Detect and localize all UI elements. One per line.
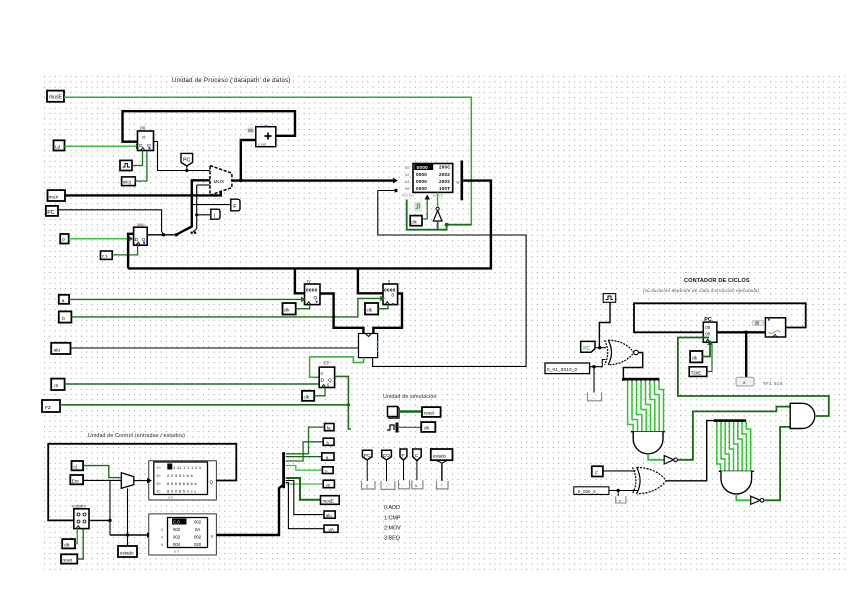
probe F (bottom row) — [399, 449, 410, 489]
wire clk to PC reg — [702, 340, 712, 357]
svg-text:uA: uA — [329, 527, 334, 532]
wire FSM riser — [109, 480, 111, 535]
tunnel clk (reg B) — [365, 303, 378, 315]
pin FZ — [42, 400, 60, 412]
svg-text:alu: alu — [54, 347, 61, 353]
wire reset to FSM — [77, 529, 83, 559]
node value junction — [592, 365, 595, 368]
wire ROM D to ALU path — [373, 191, 526, 367]
svg-text:clk: clk — [411, 219, 417, 224]
svg-text:C.0: C.0 — [173, 520, 180, 525]
svg-text:0:ADD: 0:ADD — [384, 505, 400, 511]
mux U1 MUX — [210, 166, 232, 196]
svg-text:rs: rs — [54, 383, 59, 389]
wire F to XOR2 in1 — [603, 470, 636, 472]
svg-text:clk: clk — [367, 308, 373, 313]
svg-text:0000: 0000 — [417, 165, 429, 171]
wire bundle1 bit lines — [628, 381, 664, 432]
pin LD — [54, 140, 65, 150]
svg-text:8 9 0 8 5 0 c c: 8 9 0 8 5 0 c c — [167, 489, 197, 494]
svg-text:clk: clk — [424, 426, 430, 431]
wire r2 to MUX2 — [83, 466, 121, 478]
pin fa (output) — [325, 424, 335, 431]
wire T20E to PC reg — [707, 342, 712, 371]
gate AND3 — [790, 403, 815, 428]
tunnel clk (sim) — [421, 422, 435, 432]
tunnel clk (reg A) — [283, 303, 296, 315]
clock buffer at ROM — [414, 202, 422, 212]
svg-text:musE: musE — [323, 499, 334, 504]
svg-text:Unidad de Proceso ('datapath': Unidad de Proceso ('datapath' de datos) — [172, 78, 291, 84]
pin b — [59, 311, 72, 322]
node Q junction 1 — [162, 233, 165, 236]
wire big loop (counter bus) — [634, 303, 806, 332]
pin uA (output) — [324, 525, 338, 532]
svg-text:reloj: reloj — [123, 180, 131, 185]
svg-text:CO: CO — [383, 453, 390, 459]
svg-text:u: u — [619, 498, 621, 503]
pin musE (output) — [321, 496, 340, 505]
svg-text:020: 020 — [194, 542, 202, 547]
wire EP out loop to ALU bottom (bright green) — [310, 357, 364, 377]
wire bus drop to register A — [295, 268, 305, 293]
wire EP Q riser — [335, 376, 351, 429]
probe F — [231, 199, 240, 211]
wire state to ROM3 — [110, 532, 152, 538]
wire clock to R1 — [132, 151, 143, 166]
wire musE net (bright green) — [64, 97, 471, 225]
pin Ere — [70, 475, 83, 484]
pin reset (control) — [61, 554, 77, 563]
mux MUX2 — [121, 473, 134, 489]
pin rs — [51, 379, 64, 390]
svg-text:Q: Q — [314, 295, 318, 300]
svg-text:MUX: MUX — [214, 179, 225, 185]
svg-text:FZ: FZ — [45, 405, 51, 411]
svg-text:4: 4 — [161, 536, 163, 540]
probe C (bottom row) — [412, 449, 423, 489]
pin r (output) — [322, 467, 333, 474]
pin PC (left) — [46, 206, 58, 216]
wire inv1 out to AND3 in1 — [677, 407, 790, 460]
svg-text:004: 004 — [173, 542, 181, 547]
wire bar to PC loop — [128, 181, 491, 269]
svg-text:CONTADOR DE CICLOS: CONTADOR DE CICLOS — [684, 278, 750, 284]
svg-text:00: 00 — [405, 166, 409, 170]
wire MUX input 1 (thin) — [197, 184, 210, 186]
pin alu (op select) — [51, 343, 70, 354]
svg-text:Ere: Ere — [72, 478, 80, 483]
wire MUX2 select down — [127, 488, 129, 546]
wire P to FF1 D — [69, 236, 134, 242]
svg-text:T20E: T20E — [691, 370, 702, 375]
svg-text:reset: reset — [63, 558, 73, 563]
value display (binary F) — [574, 487, 609, 495]
wire feedback loop adder to R1 D — [123, 111, 296, 142]
wire to probe I — [197, 214, 211, 216]
register B (reg2) — [383, 279, 398, 305]
wire MUX2 out to ROM2 — [134, 478, 152, 484]
wire a to reg A enable — [69, 297, 306, 303]
svg-text:0A: 0A — [195, 527, 200, 532]
wire c.s to FF1 clock — [112, 245, 137, 255]
svg-text:0_01_0010_0: 0_01_0010_0 — [547, 367, 578, 372]
svg-text:1 11 1 1 1 1 1: 1 11 1 1 1 1 1 — [173, 465, 202, 470]
svg-text:6: 6 — [161, 543, 163, 547]
wire rs to EP D — [65, 383, 320, 385]
wire ROM3 out to splitter — [216, 485, 283, 536]
svg-text:clk: clk — [304, 395, 310, 400]
splitter end marks — [191, 232, 193, 234]
node PC probe tap — [185, 169, 188, 172]
svg-text:2 2 3 3 1 b b: 2 2 3 3 1 b b — [167, 473, 194, 478]
wire down to const — [745, 332, 747, 377]
wire value box to XNOR in2 — [590, 360, 606, 367]
wire bus drop to register B — [358, 268, 383, 293]
tunnel clk (contador) — [690, 351, 702, 362]
clock component (contador) — [603, 294, 616, 303]
svg-text:2: 2 — [161, 528, 163, 532]
svg-text:F: F — [233, 204, 236, 210]
svg-text:Ld: Ld — [55, 144, 61, 149]
probe PC — [181, 153, 193, 170]
probe CO (bottom row) — [381, 450, 395, 489]
wire net to musE riser — [447, 224, 472, 226]
wire split alu — [286, 481, 324, 515]
probe PC (bottom row) — [362, 450, 376, 489]
pin co (output) — [323, 480, 334, 488]
wire reg B Q to ALU in2 — [373, 294, 402, 334]
splitter spine (control outputs) — [282, 452, 285, 488]
svg-text:c out: c out — [258, 143, 266, 147]
wire green return loop (AND3 out to PC reg) — [678, 338, 829, 417]
wire buffer to net — [437, 221, 439, 230]
gray equals box — [752, 320, 763, 325]
svg-text:a b: a b — [168, 496, 173, 500]
svg-text:c.s: c.s — [102, 254, 108, 259]
alu ALU box — [359, 334, 378, 358]
svg-text:PC: PC — [364, 453, 371, 459]
pin muX (select) — [48, 190, 66, 201]
wire AND1 out — [648, 454, 664, 460]
inverter inv1 — [664, 456, 677, 464]
svg-text:30: 30 — [156, 481, 161, 486]
wire split musE (thick) — [286, 478, 321, 500]
wire b to reg B enable — [71, 296, 385, 317]
svg-text:musE: musE — [49, 95, 62, 101]
const bracket u — [616, 496, 626, 503]
svg-text:Unidad de simulación: Unidad de simulación — [383, 394, 437, 400]
svg-text:04: 04 — [405, 180, 409, 184]
wire clk to reg B — [378, 305, 388, 309]
wire MUX output to ROM address — [232, 179, 395, 181]
svg-text:clk: clk — [64, 542, 70, 547]
wire AND2 out — [736, 494, 750, 500]
svg-text:TF1 010: TF1 010 — [763, 381, 783, 386]
svg-text:002: 002 — [173, 535, 181, 540]
svg-text:F: F — [595, 470, 598, 476]
svg-text:3:BEQ: 3:BEQ — [384, 536, 400, 542]
wire R1 Q to MUX input A — [154, 142, 211, 171]
register R1 — [138, 126, 154, 151]
wire XOR2 out to splitter2 — [666, 421, 714, 481]
register FSM (state register) — [72, 504, 89, 529]
node XNOR in1 junction — [598, 346, 601, 349]
node XOR2 junction — [617, 489, 620, 492]
svg-text:00: 00 — [248, 128, 254, 133]
svg-text:r2: r2 — [74, 464, 78, 469]
wire split r (bright) — [286, 466, 323, 471]
svg-text:2002: 2002 — [439, 179, 450, 184]
svg-text:a d: a d — [174, 550, 179, 554]
rom ROM2 (next-state table) — [149, 461, 217, 500]
ROM data pin stub — [378, 189, 398, 192]
tunnel reset (sim) — [422, 407, 441, 417]
node I tap — [195, 213, 198, 216]
counter box — [765, 318, 785, 337]
register A (reg1) — [305, 279, 321, 305]
gate AND2 (8-input, down) — [719, 471, 754, 494]
pin r2 — [72, 461, 84, 470]
svg-text:P: P — [62, 238, 65, 244]
tunnel c.s — [101, 251, 113, 259]
wire split uA — [286, 483, 324, 529]
rom ROM3 (output table) — [149, 514, 217, 555]
node select junction — [126, 533, 129, 536]
svg-text:b: b — [62, 316, 65, 322]
wire XNOR out to splitter1 — [623, 353, 642, 378]
wire PC probe to node — [595, 347, 606, 349]
svg-text:200C: 200C — [439, 165, 451, 170]
svg-text:002: 002 — [173, 527, 181, 532]
node FZ junction — [347, 403, 350, 406]
wire MUX input 0 (thick) — [191, 179, 210, 181]
gate AND1 (8-input, down) — [631, 432, 665, 454]
button (reset) — [388, 407, 400, 419]
probe estado (bottom row) — [431, 449, 453, 489]
svg-text:- ...: - ... — [769, 323, 775, 328]
const bracket (contador) — [588, 393, 602, 401]
pin a — [59, 295, 69, 304]
text instruction list — [384, 505, 401, 542]
wire adder input A — [241, 140, 256, 180]
svg-text:PC: PC — [183, 158, 190, 164]
wire split co (bright) — [286, 483, 324, 485]
svg-text:C: C — [415, 453, 419, 459]
wire alu pin to ALU — [71, 347, 359, 349]
node green junction — [445, 223, 449, 227]
svg-text:F: F — [402, 453, 405, 459]
svg-text:002: 002 — [194, 520, 202, 525]
wire bundle2 bit lines — [717, 422, 751, 471]
wire down to const bracket — [593, 367, 595, 393]
wire split b — [286, 442, 324, 461]
wire clock to XNOR in1 — [599, 302, 610, 347]
probe F (contador) — [592, 466, 603, 476]
svg-text:00: 00 — [705, 332, 710, 337]
svg-text:reset: reset — [424, 411, 435, 416]
arrowhead into ROM — [393, 178, 398, 184]
wire split fa — [286, 427, 325, 454]
wire riser to mux input1 (thin) — [193, 185, 197, 232]
tunnel clk (ROM) — [410, 216, 422, 226]
svg-text:0000: 0000 — [416, 186, 427, 191]
wire reg A Q to ALU in1 — [320, 294, 363, 334]
wire clk to reg A — [296, 305, 310, 309]
pin clk (control) — [62, 539, 75, 548]
svg-text:6 5 6 6 6 6 b b: 6 5 6 6 6 6 b b — [167, 481, 198, 486]
wire Q diagonal to mux input0 riser (thick) — [176, 180, 192, 235]
svg-text:10: 10 — [156, 465, 161, 470]
wire to probe F — [192, 204, 231, 206]
wire PC reg Q to counter — [717, 331, 766, 333]
svg-text:Q: Q — [210, 480, 214, 485]
wire reloj to R1 clock — [135, 151, 147, 182]
clock component (sim) — [387, 423, 399, 433]
svg-text:estado: estado — [433, 453, 447, 458]
wire clk to FSM — [75, 529, 77, 544]
wire value to XOR2 in2 — [609, 490, 638, 492]
node Q junction 2 — [175, 233, 178, 236]
svg-text:muX: muX — [49, 194, 60, 200]
buffer (tri-state) — [433, 192, 442, 221]
node FSM junction — [108, 519, 111, 522]
wire button to reset tunnel — [399, 410, 422, 412]
register FF1 (PC register) — [134, 222, 148, 245]
wire split a — [286, 456, 322, 458]
svg-text:30: 30 — [156, 489, 161, 494]
inverter inv2 — [751, 496, 764, 504]
svg-text:30: 30 — [156, 473, 161, 478]
wire PC pin to node — [58, 210, 164, 235]
wire ROM enable net (dark green) — [407, 200, 447, 230]
svg-text:002: 002 — [194, 535, 202, 540]
pin P — [60, 234, 68, 244]
adder U+ — [248, 125, 276, 147]
probe I — [211, 209, 220, 219]
svg-text:1:CMP: 1:CMP — [384, 516, 401, 522]
splitter bar right of ROM — [457, 161, 464, 201]
svg-text:06: 06 — [405, 187, 409, 191]
register EP — [319, 361, 334, 388]
svg-text:D: D — [321, 378, 325, 384]
svg-text:estado: estado — [120, 550, 134, 555]
wire clk to ROM sel — [422, 195, 430, 220]
wire FF1 left bus — [128, 234, 134, 269]
gate XNOR1 — [605, 340, 639, 365]
pin alu (output) — [324, 511, 335, 518]
wire clk to EP — [314, 388, 325, 396]
svg-text:100T: 100T — [439, 186, 450, 191]
svg-text:A D sel: A D sel — [402, 194, 414, 198]
svg-text:PC: PC — [47, 210, 54, 216]
wire FF1 Q out — [147, 234, 176, 236]
svg-text:Unidad de Control (entradas /: Unidad de Control (entradas / estados) — [88, 433, 185, 439]
svg-text:registro: registro — [72, 504, 87, 509]
svg-text:_0_000_0_: _0_000_0_ — [575, 489, 599, 494]
svg-text:2:MOV: 2:MOV — [384, 526, 401, 532]
svg-text:a: a — [62, 299, 65, 304]
svg-text:(su duración depende de cada i: (su duración depende de cada instrucción… — [643, 288, 760, 293]
svg-text:uuu: uuu — [137, 222, 145, 227]
rom ROM1 (program memory) — [402, 164, 453, 198]
pin b (output) — [323, 438, 334, 445]
svg-text:00: 00 — [705, 325, 710, 330]
wire mux select — [65, 192, 221, 195]
wire FSM Q to bus — [89, 519, 110, 521]
node counter junction — [744, 331, 748, 335]
wire FZ long net — [60, 404, 348, 406]
pin a (output) — [322, 453, 334, 460]
clock input box (datapath) — [120, 160, 132, 170]
value display (binary PC) — [545, 363, 590, 374]
const bracket (counter) — [736, 377, 754, 386]
tunnel estado — [118, 546, 137, 557]
wire clock to clk tunnel — [399, 426, 421, 428]
svg-text:PC: PC — [583, 346, 590, 352]
splitter1 spine — [622, 378, 659, 383]
node adder tap on PC bus — [239, 178, 243, 182]
tunnel T20E — [689, 367, 707, 377]
wire down to u bracket — [617, 491, 619, 497]
wire control feedback loop — [48, 444, 236, 521]
wire inv2 out to AND3 in2 — [764, 427, 790, 500]
svg-text:02: 02 — [405, 173, 409, 177]
svg-text:I: I — [214, 213, 215, 219]
splitter2 spine — [714, 419, 747, 424]
svg-text:clk: clk — [692, 356, 698, 361]
svg-text:EP: EP — [324, 361, 330, 366]
tunnel reloj — [122, 177, 136, 186]
svg-text:alu: alu — [326, 513, 332, 518]
pin musE — [47, 91, 64, 102]
svg-text:clk: clk — [284, 308, 290, 313]
wire LD to register R1 — [65, 144, 142, 150]
register PC (contador) — [703, 322, 717, 342]
svg-text:0000: 0000 — [416, 172, 427, 177]
svg-text:0000: 0000 — [306, 288, 318, 294]
svg-text:co: co — [326, 482, 331, 487]
svg-text:0000: 0000 — [416, 179, 427, 184]
wire Ere to MUX2 — [83, 479, 121, 481]
gate XOR2 — [632, 467, 666, 493]
svg-text:2002: 2002 — [439, 172, 450, 177]
probe PC (green label) — [581, 341, 595, 352]
tunnel clk (EP) — [302, 391, 314, 401]
